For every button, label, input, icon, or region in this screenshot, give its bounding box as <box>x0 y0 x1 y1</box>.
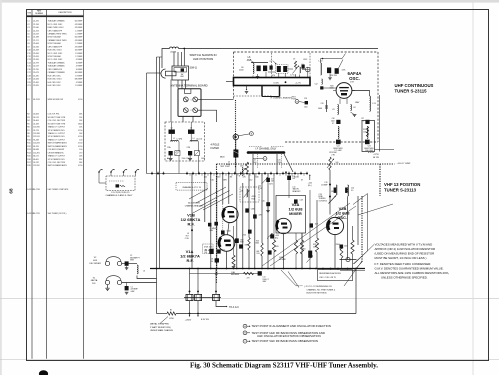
svg-text:22-829: 22-829 <box>33 85 39 87</box>
svg-text:1500 F.T.: 1500 F.T. <box>263 279 270 281</box>
coil cores L16 L17 <box>334 188 337 193</box>
trimmer C11 <box>262 177 269 184</box>
svg-text:FEED THRU G.M.V.: FEED THRU G.M.V. <box>48 27 65 29</box>
resistor R13 6800 <box>261 243 263 256</box>
label C19 dot <box>329 196 331 198</box>
leader lines note <box>281 270 296 286</box>
capacitor C14 feedthru <box>258 271 262 275</box>
svg-text:C6: C6 <box>27 37 29 39</box>
svg-text:DESCRIPTION: DESCRIPTION <box>59 12 73 14</box>
capacitor C23 feedthru on shield <box>365 140 370 145</box>
svg-text:20-183: 20-183 <box>33 123 39 125</box>
svg-text:TRANS. I.F. OUTPUT: TRANS. I.F. OUTPUT <box>48 138 66 141</box>
capacitor C21 trimmer <box>287 176 291 180</box>
capacitor C10 <box>248 230 252 234</box>
capacitor C22 grid <box>320 86 323 89</box>
leader V2B label <box>335 214 338 217</box>
resistor R1 4700 metal strap <box>167 312 176 315</box>
svg-text:WIRE WOUND 2W: WIRE WOUND 2W <box>48 99 64 101</box>
svg-text:TEST POINT VHF RF BAND PASS O: TEST POINT VHF RF BAND PASS OBSERVATION <box>252 339 319 343</box>
heater pair V1 <box>105 280 109 284</box>
tube V3 6AF4A <box>336 83 352 99</box>
tuning shaft diagonal <box>262 203 350 266</box>
svg-text:R18: R18 <box>27 165 30 167</box>
svg-text:N750 TUBULAR: N750 TUBULAR <box>48 42 62 45</box>
resistance across box <box>318 270 353 281</box>
svg-text:C9: C9 <box>293 59 295 61</box>
wire L10 top <box>322 58 324 60</box>
svg-text:UHF POSITION: UHF POSITION <box>193 57 214 61</box>
wire B+ top feed <box>162 49 170 69</box>
svg-text:112-531: 112-531 <box>33 136 39 138</box>
feedthru cylinder 2 <box>195 294 202 300</box>
svg-text:470 MMF: 470 MMF <box>75 24 83 26</box>
mixer shield box <box>276 196 306 234</box>
svg-text:112-992: 112-992 <box>33 165 39 167</box>
svg-text:95-406: 95-406 <box>33 120 39 122</box>
svg-text:100: 100 <box>336 162 339 164</box>
svg-text:6BK7A: 6BK7A <box>91 279 98 282</box>
terminal screw 3 <box>183 108 188 113</box>
wire V1A cathode <box>226 251 228 268</box>
terminal hook A <box>98 171 100 173</box>
wires under tube <box>339 98 341 104</box>
junction dot at switch feed <box>183 48 185 50</box>
svg-text:TEST: TEST <box>292 97 296 99</box>
ground L6 <box>257 74 259 77</box>
wire top horizontal to UHF box <box>179 48 379 50</box>
svg-text:1/2 W CARBON 20%: 1/2 W CARBON 20% <box>48 129 65 132</box>
svg-text:112-268: 112-268 <box>33 133 39 135</box>
svg-text:R6: R6 <box>230 177 232 179</box>
wires UHF input cluster <box>268 71 276 73</box>
svg-text:SWITCH WAFER ASSY.: SWITCH WAFER ASSY. <box>48 164 68 167</box>
svg-text:2.2 MMF: 2.2 MMF <box>210 228 216 230</box>
svg-text:NUMBER: NUMBER <box>35 13 43 15</box>
svg-text:C22: C22 <box>315 84 318 86</box>
svg-text:C3 470: C3 470 <box>273 83 279 85</box>
svg-text:GMV: GMV <box>355 102 360 104</box>
svg-text:10%: 10% <box>269 184 273 186</box>
oscillator shield plate perspective <box>367 194 369 252</box>
svg-text:N750 TUBULAR: N750 TUBULAR <box>48 55 62 58</box>
svg-text:1000: 1000 <box>331 120 335 122</box>
coil L7 RF with core <box>276 65 289 74</box>
wire comb x211 <box>210 174 212 269</box>
bracket leg right <box>279 86 281 97</box>
junction osc <box>329 184 331 186</box>
svg-text:22-696: 22-696 <box>33 53 39 55</box>
svg-text:TRANS. I.F. OUTPUT: TRANS. I.F. OUTPUT <box>48 126 66 129</box>
svg-text:OSC MIXER: OSC MIXER <box>89 263 101 265</box>
svg-text:3.9 MMF: 3.9 MMF <box>75 75 83 77</box>
capacitor C3 filter left <box>169 151 173 155</box>
svg-text:22-673: 22-673 <box>33 72 39 74</box>
main ground bus <box>150 268 365 270</box>
svg-text:10 MMF: 10 MMF <box>76 69 83 71</box>
svg-text:6.3V FIL: 6.3V FIL <box>201 319 210 321</box>
resistor R8 470 <box>272 240 275 252</box>
VHF tuner fence right upper <box>379 164 381 196</box>
svg-text:L3: L3 <box>143 270 145 272</box>
svg-text:C16: C16 <box>262 200 265 202</box>
extra UHF blobs <box>270 66 273 70</box>
svg-text:R18 15K: R18 15K <box>330 75 338 77</box>
svg-text:R.F.: R.F. <box>92 283 96 285</box>
wire V2A down <box>283 234 285 269</box>
switch wafer diagonal links <box>196 187 226 203</box>
svg-text:R15: R15 <box>27 156 30 158</box>
wires through cylinders <box>189 269 191 295</box>
svg-text:22-699: 22-699 <box>33 56 39 58</box>
wire B plus vertical pair <box>156 57 158 314</box>
terminal hook D <box>135 171 137 173</box>
svg-text:4700: 4700 <box>78 99 82 101</box>
svg-text:+ FIG 17 JUMP: + FIG 17 JUMP <box>397 163 412 165</box>
svg-text:22-220: 22-220 <box>33 69 39 71</box>
svg-text:470K 10%: 470K 10% <box>204 247 213 249</box>
leader to notes <box>354 245 374 265</box>
svg-text:1/2 W CARBON 10%: 1/2 W CARBON 10% <box>48 158 65 161</box>
parts table column lines <box>31 10 33 359</box>
wire IF bus diagonal <box>284 154 293 172</box>
svg-text:R19: R19 <box>363 129 366 131</box>
svg-text:22-328: 22-328 <box>33 50 39 52</box>
wire switch feeds <box>173 52 175 66</box>
svg-text:BRACKET: BRACKET <box>293 190 301 193</box>
svg-text:3-13: 3-13 <box>258 188 262 190</box>
wire RF coil feed x192 <box>191 174 193 269</box>
wires hooks into strip <box>99 172 106 183</box>
svg-text:2 W: 2 W <box>331 154 335 156</box>
capacitor C8 feedthru <box>215 258 219 262</box>
wire V1B to V1A <box>228 223 230 235</box>
svg-text:47: 47 <box>301 179 303 181</box>
resistor R14 block <box>294 240 297 254</box>
svg-text:[SW-1]: [SW-1] <box>190 67 197 69</box>
svg-text:(METAL STRAPPED: (METAL STRAPPED <box>150 323 170 326</box>
feedthru cylinder 1 <box>186 294 193 300</box>
svg-text:C4: C4 <box>27 30 29 32</box>
svg-text:C28: C28 <box>304 98 307 100</box>
terminal hook C <box>123 171 125 173</box>
svg-text:C26: C26 <box>321 103 324 105</box>
svg-text:95-723: 95-723 <box>33 130 39 132</box>
svg-text:(USED ON MEASURING END OF R: (USED ON MEASURING END OF RESISTOR <box>375 251 435 255</box>
svg-text:R1: R1 <box>27 99 29 101</box>
svg-text:RESISTANCE ACROSS: RESISTANCE ACROSS <box>319 272 341 275</box>
coil L5B variable <box>242 168 243 176</box>
antenna terminal board <box>178 89 201 117</box>
svg-text:UHF: UHF <box>180 76 183 78</box>
ground C2 <box>126 266 128 268</box>
terminal hook B <box>110 171 112 173</box>
svg-text:I.F CHANNEL, BRACKET: I.F CHANNEL, BRACKET <box>270 97 293 100</box>
coil L9 osc <box>300 67 301 73</box>
turret contact wafer line <box>147 173 308 175</box>
svg-text:22-979: 22-979 <box>33 62 39 64</box>
wire comb x204 <box>204 174 206 223</box>
svg-text:ALL RESISTORS ARE 1/2W CAR: ALL RESISTORS ARE 1/2W CARBON RESISTORS … <box>375 271 450 275</box>
misc grounds <box>266 210 270 212</box>
wire osc x330 <box>329 170 331 197</box>
fine tuning arrow <box>329 196 337 204</box>
svg-text:600 MMF: 600 MMF <box>75 37 83 39</box>
wire osc coil with circle <box>340 259 357 261</box>
svg-text:CERAMIC FEED THRU: CERAMIC FEED THRU <box>48 32 68 35</box>
svg-text:22-940: 22-940 <box>33 27 39 29</box>
svg-text:SOCKET TUBE 9 PIN: SOCKET TUBE 9 PIN <box>48 117 66 119</box>
coil L10 osc line <box>321 63 322 75</box>
svg-text:R9: R9 <box>27 136 29 138</box>
coil L4 filter right <box>190 141 198 142</box>
svg-text:TUNER S-23113: TUNER S-23113 <box>384 188 417 193</box>
resistor R17 1000 <box>246 162 249 172</box>
coil L12 <box>351 105 352 111</box>
svg-text:22-664: 22-664 <box>33 43 39 45</box>
svg-text:112-996: 112-996 <box>33 127 39 129</box>
svg-text:L13B: L13B <box>294 177 299 179</box>
svg-text:63-1976: 63-1976 <box>33 99 40 101</box>
svg-text:R8: R8 <box>27 133 29 135</box>
svg-text:TEST POINT: TEST POINT <box>220 166 230 168</box>
svg-text:R.F.: R.F. <box>186 258 193 263</box>
svg-text:22-766: 22-766 <box>33 24 39 26</box>
capacitor C3 600 <box>208 223 211 227</box>
svg-text:HI-K CER. DISC: HI-K CER. DISC <box>48 85 62 87</box>
coil L8 tuned <box>247 189 248 197</box>
svg-text:VHF TUNER (13 POS.): VHF TUNER (13 POS.) <box>48 213 67 215</box>
wire osc x347 down <box>347 197 349 260</box>
svg-text:C10: C10 <box>210 179 213 181</box>
svg-text:20-608: 20-608 <box>33 114 39 116</box>
svg-text:G.M.V. DENOTES GUARANTEED MI: G.M.V. DENOTES GUARANTEED MINIMUM VALUE. <box>375 267 444 271</box>
resistor R19 in box <box>366 127 368 137</box>
svg-text:N.P.O. CER. DISC: N.P.O. CER. DISC <box>48 59 63 61</box>
svg-text:1000: 1000 <box>304 107 308 109</box>
channel bracket bus <box>234 78 311 86</box>
capacitor C9B <box>270 234 274 238</box>
coil L11 <box>338 105 339 115</box>
svg-text:C8: C8 <box>211 259 213 261</box>
svg-text:L21: L21 <box>204 177 207 179</box>
svg-text:95-232: 95-232 <box>33 162 39 164</box>
svg-text:UHF OSCILLATOR EXCITATION OBSE: UHF OSCILLATOR EXCITATION OBSERVATION <box>257 334 321 338</box>
bracket hatch lower <box>262 96 280 98</box>
svg-text:OSC. COIL L18 75: OSC. COIL L18 75 <box>319 277 337 279</box>
svg-text:SWITCH WAFER ASSY.: SWITCH WAFER ASSY. <box>48 142 68 145</box>
svg-text:22-619: 22-619 <box>33 33 39 35</box>
svg-text:ANTENNA TERMINAL BOARD: ANTENNA TERMINAL BOARD <box>170 83 207 87</box>
svg-text:UNLESS OTHERWISE SPECIFIED.: UNLESS OTHERWISE SPECIFIED. <box>381 276 428 280</box>
svg-text:C18: C18 <box>27 75 30 77</box>
svg-text:C19: C19 <box>27 79 30 81</box>
svg-text:F.T. DENOTES FEED THRU COND: F.T. DENOTES FEED THRU CONDENSER. <box>375 262 432 266</box>
svg-text:C25: C25 <box>319 194 322 196</box>
capacitor C27 feedthru <box>365 120 369 124</box>
svg-text:CER. STANDOFF: CER. STANDOFF <box>48 29 63 32</box>
svg-text:22-481: 22-481 <box>33 82 39 84</box>
svg-text:I.F CHANNEL ONLY: I.F CHANNEL ONLY <box>256 147 277 150</box>
svg-text:C8: C8 <box>27 43 29 45</box>
VHF tuner fence right lower <box>361 196 363 262</box>
dashed box L8 osc section <box>240 187 259 202</box>
svg-text:95-576: 95-576 <box>33 117 39 119</box>
svg-text:R17: R17 <box>27 162 30 164</box>
svg-text:L4: L4 <box>193 138 195 140</box>
svg-text:L13: L13 <box>373 103 376 105</box>
label 6.3V FIL <box>197 315 199 317</box>
svg-text:R6: R6 <box>27 127 29 129</box>
svg-text:L8: L8 <box>240 191 242 193</box>
label +250V <box>189 315 191 317</box>
extra wafer ticks <box>189 174 191 176</box>
resistor R16 100 variable <box>329 157 331 170</box>
socket pin circle <box>306 67 311 72</box>
svg-text:470: 470 <box>276 246 279 248</box>
punch hole dot <box>39 370 48 377</box>
svg-text:COIL OSC. SECTION: COIL OSC. SECTION <box>48 162 66 164</box>
wire right extension <box>340 270 365 272</box>
resistor R2 filter left <box>175 151 180 156</box>
leader metal strapped <box>160 317 168 324</box>
test point A UHF <box>295 100 299 104</box>
svg-text:CERAMIC FEED THRU: CERAMIC FEED THRU <box>48 39 68 42</box>
svg-text:2: 2 <box>191 110 192 112</box>
svg-text:600: 600 <box>274 251 277 253</box>
svg-text:CERAMIC TRIMMER: CERAMIC TRIMMER <box>48 71 66 74</box>
svg-text:TUBULAR CERAMIC: TUBULAR CERAMIC <box>48 61 66 64</box>
svg-text:C12: C12 <box>27 56 30 58</box>
ground C1 <box>125 291 129 293</box>
svg-text:47 MMF: 47 MMF <box>76 82 83 84</box>
svg-text:R12: R12 <box>27 146 30 148</box>
svg-text:TRANS. I.F. OUTPUT: TRANS. I.F. OUTPUT <box>48 132 66 135</box>
svg-text:1000: 1000 <box>318 108 322 110</box>
svg-text:2.2 MMF: 2.2 MMF <box>75 43 83 45</box>
svg-text:4700: 4700 <box>78 136 82 138</box>
svg-text:112-693: 112-693 <box>33 143 39 145</box>
svg-text:R4: R4 <box>27 120 29 122</box>
svg-text:600: 600 <box>255 177 258 179</box>
svg-text:1/2 W CARBON 10%: 1/2 W CARBON 10% <box>48 135 65 138</box>
svg-text:63-605: 63-605 <box>33 159 39 161</box>
test point B circle <box>250 132 254 136</box>
svg-text:C16: C16 <box>27 69 30 71</box>
ground bracket <box>246 86 248 90</box>
svg-text:TEST POINT IF ALIGNMENT AND OS: TEST POINT IF ALIGNMENT AND OSCILLATOR I… <box>252 324 331 328</box>
capacitor C30 feedthru <box>336 120 340 124</box>
svg-text:TO A.G.C: TO A.G.C <box>229 306 239 309</box>
svg-text:R13: R13 <box>27 149 30 151</box>
svg-text:FILTER: FILTER <box>211 147 220 150</box>
svg-text:112-391: 112-391 <box>33 152 39 154</box>
svg-text:3.9 MMF: 3.9 MMF <box>75 85 83 87</box>
svg-text:63-376: 63-376 <box>33 146 39 148</box>
svg-text:C17: C17 <box>27 72 30 74</box>
capacitor C2B filter right <box>188 130 194 134</box>
capacitor C28 feedthru <box>305 101 308 104</box>
coil grid choke <box>321 79 324 84</box>
svg-text:600 MMF: 600 MMF <box>75 21 83 23</box>
svg-text:CHANNELS 2 AND 3 ONLY: CHANNELS 2 AND 3 ONLY <box>105 194 133 197</box>
svg-text:CHANNEL BRACKET: CHANNEL BRACKET <box>185 205 204 208</box>
svg-text:HI-K DISC G.M.V.: HI-K DISC G.M.V. <box>48 50 63 52</box>
svg-text:MUST BE SHORT, 1/4 INCH OR: MUST BE SHORT, 1/4 INCH OR LESS ) <box>375 256 427 260</box>
svg-text:C12: C12 <box>249 179 252 181</box>
svg-text:3.9: 3.9 <box>351 190 353 192</box>
svg-text:R14: R14 <box>27 152 30 154</box>
svg-text:C17: C17 <box>271 178 274 180</box>
wire heater V1 right <box>122 282 157 284</box>
svg-text:CHANNEL, NO. FINE TUNER &: CHANNEL, NO. FINE TUNER & <box>307 288 336 291</box>
terminal screw 4 <box>193 108 198 113</box>
resistor under V2B <box>340 246 343 258</box>
svg-text:+275V: +275V <box>373 154 379 156</box>
coil L11B lower <box>338 127 339 139</box>
svg-text:2200: 2200 <box>336 244 340 246</box>
svg-text:470 MMF: 470 MMF <box>75 46 83 48</box>
svg-text:C7 2.2: C7 2.2 <box>290 75 297 77</box>
svg-text:600: 600 <box>210 261 213 263</box>
svg-text:22-474: 22-474 <box>33 30 39 32</box>
svg-text:2 WATT RESISTORS): 2 WATT RESISTORS) <box>150 326 171 329</box>
AGC return line <box>190 273 263 275</box>
svg-text:47 MMF: 47 MMF <box>76 59 83 61</box>
svg-text:R1: R1 <box>170 310 172 312</box>
filter dashed enclosure <box>165 122 205 161</box>
svg-text:C30: C30 <box>332 118 335 120</box>
resistor R40 strip <box>120 185 125 187</box>
svg-text:C15: C15 <box>27 66 30 68</box>
wire comb x217 <box>216 174 218 269</box>
coil L2 filter left <box>171 141 179 142</box>
svg-text:C7: C7 <box>27 40 29 42</box>
svg-text:2.2 MMF: 2.2 MMF <box>75 56 83 58</box>
turret contacts <box>151 173 153 175</box>
svg-text:1.5 MMF: 1.5 MMF <box>321 184 328 186</box>
wire V2B down <box>334 235 336 269</box>
svg-text:600 MMF: 600 MMF <box>279 259 286 261</box>
svg-text:COIL ANT. B SHUNT: COIL ANT. B SHUNT <box>48 148 66 151</box>
channels 2-3 dashed box <box>106 176 135 191</box>
svg-text:1500: 1500 <box>201 158 205 160</box>
svg-text:L16: L16 <box>331 191 334 193</box>
grid box R4 <box>203 244 213 253</box>
svg-text:C11: C11 <box>27 53 30 55</box>
svg-text:+250V: +250V <box>185 320 192 322</box>
svg-text:270: 270 <box>247 278 250 280</box>
svg-text:R16: R16 <box>27 159 30 161</box>
feedthru cylinder 3 <box>213 294 220 300</box>
resistor R2B filter right <box>194 151 199 156</box>
IF channel thick bus <box>248 151 284 154</box>
svg-text:22-188: 22-188 <box>33 37 39 39</box>
legend test point C <box>243 339 247 343</box>
svg-text:CONTROL: CONTROL <box>319 201 328 203</box>
wire tube plate to L13 <box>352 91 370 97</box>
svg-text:2.2 MMF: 2.2 MMF <box>75 33 83 35</box>
wire plug down to filter <box>170 80 172 123</box>
svg-text:N750 TUBULAR: N750 TUBULAR <box>48 36 62 39</box>
svg-text:270: 270 <box>79 152 82 154</box>
svg-text:SYM: SYM <box>27 12 31 14</box>
svg-text:Fig. 30 Schematic Diagram S23: Fig. 30 Schematic Diagram S23117 VHF-UHF… <box>190 362 378 370</box>
svg-text:L2: L2 <box>173 138 175 140</box>
svg-text:2200: 2200 <box>344 245 348 247</box>
svg-text:TRANS. I.F. OUTPUT: TRANS. I.F. OUTPUT <box>48 155 66 158</box>
svg-text:VOLTAGES MEASURED WITH V.T.: VOLTAGES MEASURED WITH V.T.V.M AND <box>375 243 433 247</box>
